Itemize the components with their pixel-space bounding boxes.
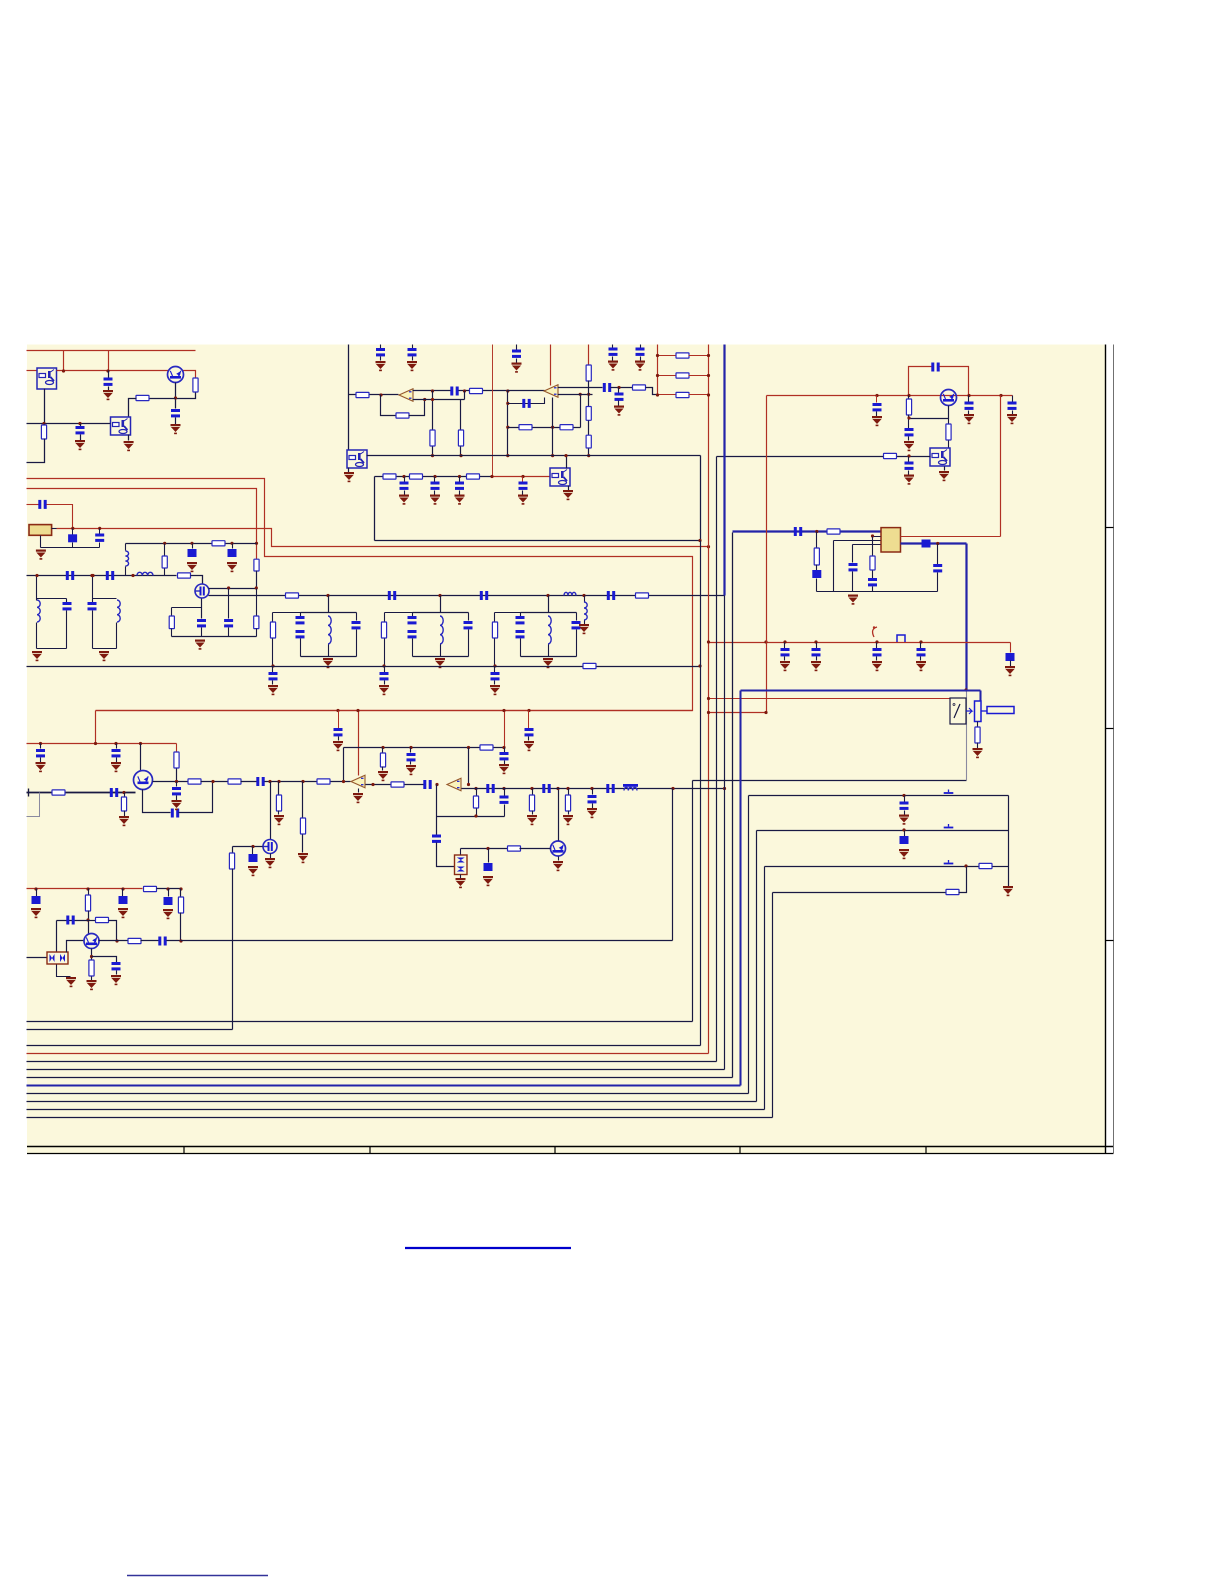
wire Q5 out <box>153 781 189 783</box>
wire Q1 emitter <box>175 383 177 409</box>
capacitor C26 <box>905 428 914 436</box>
node ladder R 1 <box>707 354 710 357</box>
node opamp3 out j <box>371 783 374 786</box>
node D j2 <box>967 394 970 397</box>
capacitor Cf816 <box>812 648 821 656</box>
wire D2 top pin <box>460 849 462 855</box>
node C33 tap <box>936 542 939 545</box>
wire R29 to C29 <box>816 565 818 571</box>
node input junction A <box>42 422 45 425</box>
wire Q6 base <box>520 848 551 850</box>
wire C43 gnd <box>338 737 340 741</box>
hyperlink underline bottom <box>127 1575 268 1577</box>
wire tank1 feed <box>328 596 330 613</box>
resistor R20 <box>633 385 646 390</box>
wire C11 bottom <box>66 611 68 649</box>
ground crystal <box>36 550 46 560</box>
wire emitter loop b <box>179 782 213 813</box>
node supply junction <box>62 369 65 372</box>
capacitor C5 solid <box>68 534 77 542</box>
wire rows common <box>1008 796 1010 887</box>
wire Cl116 lead <box>116 744 118 749</box>
ground C51 <box>118 908 128 918</box>
node R21c bottom <box>587 454 590 457</box>
wire D2 gnd lead <box>460 875 462 879</box>
wire Q2 upper out <box>209 588 257 590</box>
transistor Q2 mosfet <box>195 584 209 598</box>
capacitor Cc435 <box>431 482 440 490</box>
node red 338 tap <box>336 709 339 712</box>
wire E bottom rail <box>817 591 938 593</box>
wire drop 568 <box>568 789 570 795</box>
wire C23 gnd <box>876 412 878 417</box>
wire R53 stub a <box>476 789 478 797</box>
ground top 613 <box>608 361 618 371</box>
node opamp2 in junction <box>506 389 509 392</box>
sheet border right outer line <box>1113 345 1115 1154</box>
switch S1 <box>944 790 954 794</box>
node q7 base net <box>86 918 89 921</box>
capacitor C4 <box>38 500 46 509</box>
wire C18 out drop <box>464 391 466 400</box>
wire Q8 emitter net <box>909 406 949 419</box>
wire R36 col <box>278 782 280 795</box>
node red 504 tap <box>502 709 505 712</box>
resistor Rl2 <box>676 373 689 378</box>
capacitor Cf785 <box>781 648 790 656</box>
capacitor C9 <box>66 571 74 580</box>
wire Cc404 gnd lead <box>404 491 406 495</box>
wire red drop to E <box>1000 396 1002 537</box>
resistor R41 <box>480 745 493 750</box>
ground Cc435 <box>430 495 440 505</box>
resistor R51 <box>946 889 959 894</box>
node tank2 tap <box>438 594 441 597</box>
wire Cf921 gnd <box>920 657 922 661</box>
wire opamp1 input <box>349 394 399 396</box>
wire C6 bottom <box>99 543 101 548</box>
wire base net <box>57 920 89 922</box>
wire emitter to R3 <box>149 398 176 400</box>
resistor R50 <box>979 863 992 868</box>
node H to L2 <box>698 539 701 542</box>
resistor R16 <box>430 430 435 446</box>
wire Cs36 lead <box>36 889 38 897</box>
node Rt2 on AGC rail <box>382 664 385 667</box>
ground C50 <box>31 908 41 918</box>
node D j4 <box>999 394 1002 397</box>
capacitor C36 <box>171 809 179 818</box>
wire bus line 6 <box>27 1069 725 1071</box>
node C18 out junction <box>463 389 466 392</box>
wire tank2 top rail <box>413 612 469 614</box>
wire R2 bottom <box>176 393 196 399</box>
wire L3 bottom <box>36 623 38 649</box>
node chain2 cap 404 <box>402 475 405 478</box>
ground top cap 380.5 <box>376 361 386 371</box>
ground U6 <box>939 471 949 481</box>
wire U1 bottom pin <box>44 389 46 424</box>
wire top cap 613 gnd <box>612 357 614 361</box>
wire Q3 source <box>270 854 272 859</box>
wire Rt3 bottom <box>494 639 496 667</box>
node D j3 <box>875 394 878 397</box>
wire Cc435 lead <box>434 477 436 482</box>
wire tank1 right lead <box>356 613 358 621</box>
wire R45 col <box>88 889 90 895</box>
capacitor C45 <box>432 835 441 843</box>
capacitor C33 <box>933 564 942 572</box>
ground top cap 412 <box>407 361 417 371</box>
wire bus line 3 <box>27 1045 701 1047</box>
wire C23 stub <box>876 396 878 403</box>
resistor R10 <box>286 593 299 598</box>
node F cap 877 <box>875 640 878 643</box>
resistor R11 <box>636 593 649 598</box>
wire C42 gnd <box>528 737 530 741</box>
wire C40 col <box>410 748 412 753</box>
ground tank2 <box>435 658 445 668</box>
wire C45 bottom <box>437 843 455 867</box>
node tank1 tap <box>326 594 329 597</box>
resistor R17 <box>458 430 463 446</box>
wire base net c <box>109 921 117 941</box>
wire relay row2 <box>757 830 1009 832</box>
ground T0b <box>99 651 109 661</box>
wire red to U7 <box>901 536 1001 538</box>
ground C39 <box>248 866 258 876</box>
wire tank3 right lead <box>576 613 578 621</box>
wire Cg3 lead <box>494 667 496 673</box>
ground C43 <box>333 741 343 751</box>
wire X1 bottom pin <box>40 536 42 548</box>
wire drop 592 gnd <box>592 804 594 809</box>
capacitor C41 <box>500 752 509 760</box>
capacitor Cc523 <box>519 482 528 490</box>
wire riser L5 <box>724 596 726 1070</box>
wire red supply rail <box>96 710 693 712</box>
capacitor C1 <box>104 378 113 386</box>
wire C3 lead <box>80 424 82 427</box>
wire red bus P <box>27 479 693 711</box>
wire Cl116 gnd <box>116 758 118 763</box>
capacitor C58 <box>500 796 509 804</box>
inductor Lt1 <box>328 616 331 644</box>
wire C40 gnd <box>410 762 412 765</box>
resistor R42 <box>508 846 521 851</box>
wire riser L9 <box>756 831 758 1102</box>
wire bus line 8 bold <box>27 1084 741 1086</box>
wire tank1 left bottom <box>300 639 302 657</box>
ground R36 <box>274 815 284 825</box>
node U5 pin <box>564 454 567 457</box>
wire Cc523 gnd lead <box>522 491 524 495</box>
resistor R19 <box>560 425 573 430</box>
wire bus line 12 <box>27 1117 773 1119</box>
wire Lt1 bottom <box>328 645 330 657</box>
wire tank2 bottom rail <box>413 656 469 658</box>
resistor R3 <box>136 395 149 400</box>
wire C24 gnd <box>968 411 970 415</box>
wire R21c bottom <box>588 449 590 456</box>
wire R37 bottom <box>302 835 304 853</box>
capacitor C17 <box>607 591 615 600</box>
node chain j1 <box>91 574 94 577</box>
node Q5 out j <box>175 780 178 783</box>
wire relay row4 <box>773 892 947 894</box>
wire diode row <box>461 848 509 850</box>
resistor Rl1 <box>676 353 689 358</box>
node pot red tap <box>707 697 710 700</box>
node out drop 568 <box>566 787 569 790</box>
wire red supply drop left <box>95 711 97 744</box>
capacitor C10 <box>106 571 114 580</box>
ground R33 <box>119 816 129 826</box>
resistor Rd532 <box>529 795 534 811</box>
wire Q3 gate chain <box>232 847 234 853</box>
resistor R7 <box>178 573 191 578</box>
resistor R48 <box>128 938 141 943</box>
wire Cg3 gnd lead <box>494 681 496 685</box>
resistor R5 <box>162 556 167 568</box>
wire drop 532 <box>532 789 534 795</box>
wire R53 stub b <box>476 809 478 817</box>
node chain2 cap 523 <box>521 475 524 478</box>
wire ladder right 3 <box>689 394 709 396</box>
capacitor top 412 <box>408 348 417 356</box>
wire Cl40.5 lead <box>40 744 42 749</box>
wire pin b col <box>833 541 835 592</box>
wire C42 col <box>528 711 530 729</box>
node Q1 emitter junction <box>174 396 177 399</box>
wire C14 bottom <box>228 628 230 637</box>
node C7 tap <box>190 542 193 545</box>
capacitor Cc459.5 <box>455 482 464 490</box>
ground Q3 <box>265 858 275 868</box>
wire bold E input <box>733 530 881 532</box>
inductor Lt3 <box>548 616 551 644</box>
node q7 j3 <box>121 887 124 890</box>
capacitor C19 <box>522 399 530 408</box>
wire col 181 b <box>180 913 182 941</box>
ground C41 <box>499 764 509 774</box>
node fb3 r1 <box>381 746 384 749</box>
node red link R <box>764 711 767 714</box>
wire C1 to ground <box>108 387 110 391</box>
wire R8 stub <box>171 608 173 617</box>
wire rail seg3 <box>265 781 351 783</box>
resistor R21 <box>586 365 591 381</box>
capacitor C3 <box>76 426 85 434</box>
resistor R34 <box>188 779 201 784</box>
wire fb3 left col <box>343 748 345 782</box>
wire kk col <box>56 921 58 953</box>
ground D2 <box>456 878 466 888</box>
wire C43 col <box>338 711 340 729</box>
capacitor C54 <box>112 962 121 970</box>
capacitor C50 solid <box>32 896 41 904</box>
wire R45 b <box>88 911 90 934</box>
ground E block <box>848 595 858 605</box>
wire bus line 10 <box>27 1101 757 1103</box>
capacitor C25 <box>1008 402 1017 410</box>
wire Cf816 gnd <box>816 657 818 661</box>
border zone tick right 1 <box>1106 527 1114 529</box>
wire row4 up <box>959 867 967 893</box>
wire Cg2 lead <box>384 667 386 673</box>
wire input to U2 <box>27 423 111 425</box>
switch S2 <box>944 824 954 828</box>
resistor R36 <box>276 795 281 811</box>
wire audio rail left <box>27 792 136 794</box>
resistor R43 <box>144 886 157 891</box>
fuse F1 <box>873 627 877 637</box>
wire VCC rail top-left <box>27 350 196 352</box>
wire tank T0a feed <box>36 576 38 601</box>
capacitor top 380.5 <box>376 348 385 356</box>
ground Cf921 <box>916 661 926 671</box>
resistor R49 <box>975 727 980 743</box>
node Cl116 tap <box>114 742 117 745</box>
wire red drop 504 <box>504 711 506 748</box>
wire Rv2 column <box>460 400 462 431</box>
node F j2 <box>764 640 767 643</box>
wire row1 cap gnd <box>904 811 906 815</box>
ground D1 <box>66 977 76 987</box>
wire crystal gnd rail <box>41 547 100 549</box>
wire Q6 collector <box>558 789 560 841</box>
photocoupler U1 <box>37 368 57 389</box>
capacitor C57 solid <box>900 836 909 844</box>
capacitor Ct3b <box>516 630 525 638</box>
wire L6 gnd lead <box>584 621 586 625</box>
border zone tick right 2 <box>1106 728 1114 730</box>
resistor R21c <box>586 435 591 448</box>
ground C27 <box>904 475 914 485</box>
wire C12 bottom <box>92 611 94 649</box>
wire U6 gnd lead <box>944 467 946 471</box>
op-amp U8A <box>351 775 365 788</box>
capacitor Cg1 <box>269 672 278 680</box>
wire R47 gnd <box>91 977 93 981</box>
resistor R18 <box>519 425 532 430</box>
wire crystal net <box>57 529 709 547</box>
wire tank3 right bottom <box>576 630 578 657</box>
node L6 tap <box>582 594 585 597</box>
IC U7 <box>881 528 901 552</box>
ground U2 <box>124 441 134 451</box>
wire tank2 feed <box>440 596 442 613</box>
wire opamp3 out <box>366 784 424 786</box>
wire Cg2 gnd lead <box>384 681 386 685</box>
wire top cap 613 stub <box>612 345 614 348</box>
wire Cf877 gnd <box>876 657 878 661</box>
wire C21 gnd lead <box>618 401 620 406</box>
wire Q3 gate <box>233 846 263 848</box>
wire T0a bottom rail <box>37 648 67 650</box>
wire Lt3 bottom <box>548 645 550 657</box>
capacitor C53 <box>66 916 74 925</box>
ground Cf816 <box>811 661 821 671</box>
border zone tick bottom 2 <box>369 1147 371 1154</box>
resistor R52 <box>391 782 404 787</box>
resistor R23 <box>410 474 423 479</box>
wire Rt1 top <box>272 613 274 623</box>
wire C52 lead <box>168 889 170 897</box>
wire chain2 red segment <box>493 476 551 478</box>
ground Q6 <box>553 861 563 871</box>
wire R21 supply <box>588 345 590 365</box>
node Q2 upper j <box>227 586 230 589</box>
ground Cg2 <box>379 685 389 695</box>
resistor R12 <box>583 663 596 668</box>
resistor R21b <box>586 407 591 421</box>
capacitor C8 solid <box>228 549 237 557</box>
wire relay row3 <box>765 866 979 868</box>
node Q5 collector feed <box>139 742 142 745</box>
resistor R37 <box>300 818 305 834</box>
sheet border right inner line <box>1105 345 1107 1154</box>
wire C58 stub a <box>504 789 506 796</box>
wire bus line 5 <box>27 1061 717 1063</box>
wire Cl40.5 gnd <box>40 758 42 763</box>
resistor Rt3 <box>492 622 497 638</box>
wire riser L5 bold top <box>723 345 725 596</box>
node R21 join <box>587 393 590 396</box>
wire C24 stub <box>968 396 970 402</box>
ground Rd568 <box>563 815 573 825</box>
wire R21b link <box>588 421 590 436</box>
node R5 tap <box>163 542 166 545</box>
wire Cg1 lead <box>272 667 274 673</box>
wire tank1 right bottom <box>356 630 358 657</box>
wire T0b top rail <box>93 598 117 600</box>
ground C3 <box>75 440 85 450</box>
wire C37 col <box>176 782 178 787</box>
node fb2 bottom <box>506 454 509 457</box>
wire bus line 4 red <box>27 1053 709 1055</box>
wire Rt2 top <box>384 613 386 623</box>
node rail to L5 <box>723 787 726 790</box>
wire U4 gnd lead <box>348 468 350 473</box>
ground C21 <box>614 406 624 416</box>
resistor R25 <box>906 399 911 415</box>
node ladder L 3 <box>656 393 659 396</box>
wire C13 bottom <box>201 628 203 637</box>
wire red right drop <box>766 396 768 713</box>
node fb4 r bot <box>474 814 477 817</box>
ground bias loop <box>195 640 205 650</box>
wire R29 col <box>816 532 818 549</box>
node C8 tap <box>230 542 233 545</box>
wire fb4 lower col <box>436 817 438 835</box>
wire Q column lower <box>256 571 258 589</box>
node Rt1 on AGC rail <box>271 664 274 667</box>
node Rv1 cross <box>431 398 434 401</box>
ground Cd592 <box>587 808 597 818</box>
wire red tap column <box>492 345 494 477</box>
node C52 tap <box>166 887 169 890</box>
wire Q2 source <box>201 599 203 619</box>
ground Cf877 <box>872 661 882 671</box>
wire tank1 top rail <box>301 612 357 614</box>
wire C41 col <box>504 748 506 753</box>
node T0b tap <box>90 574 93 577</box>
ground Rd532 <box>527 815 537 825</box>
wire R21 bottom <box>588 381 590 407</box>
capacitor Ct2b <box>408 630 417 638</box>
wire gray tap <box>27 793 40 817</box>
